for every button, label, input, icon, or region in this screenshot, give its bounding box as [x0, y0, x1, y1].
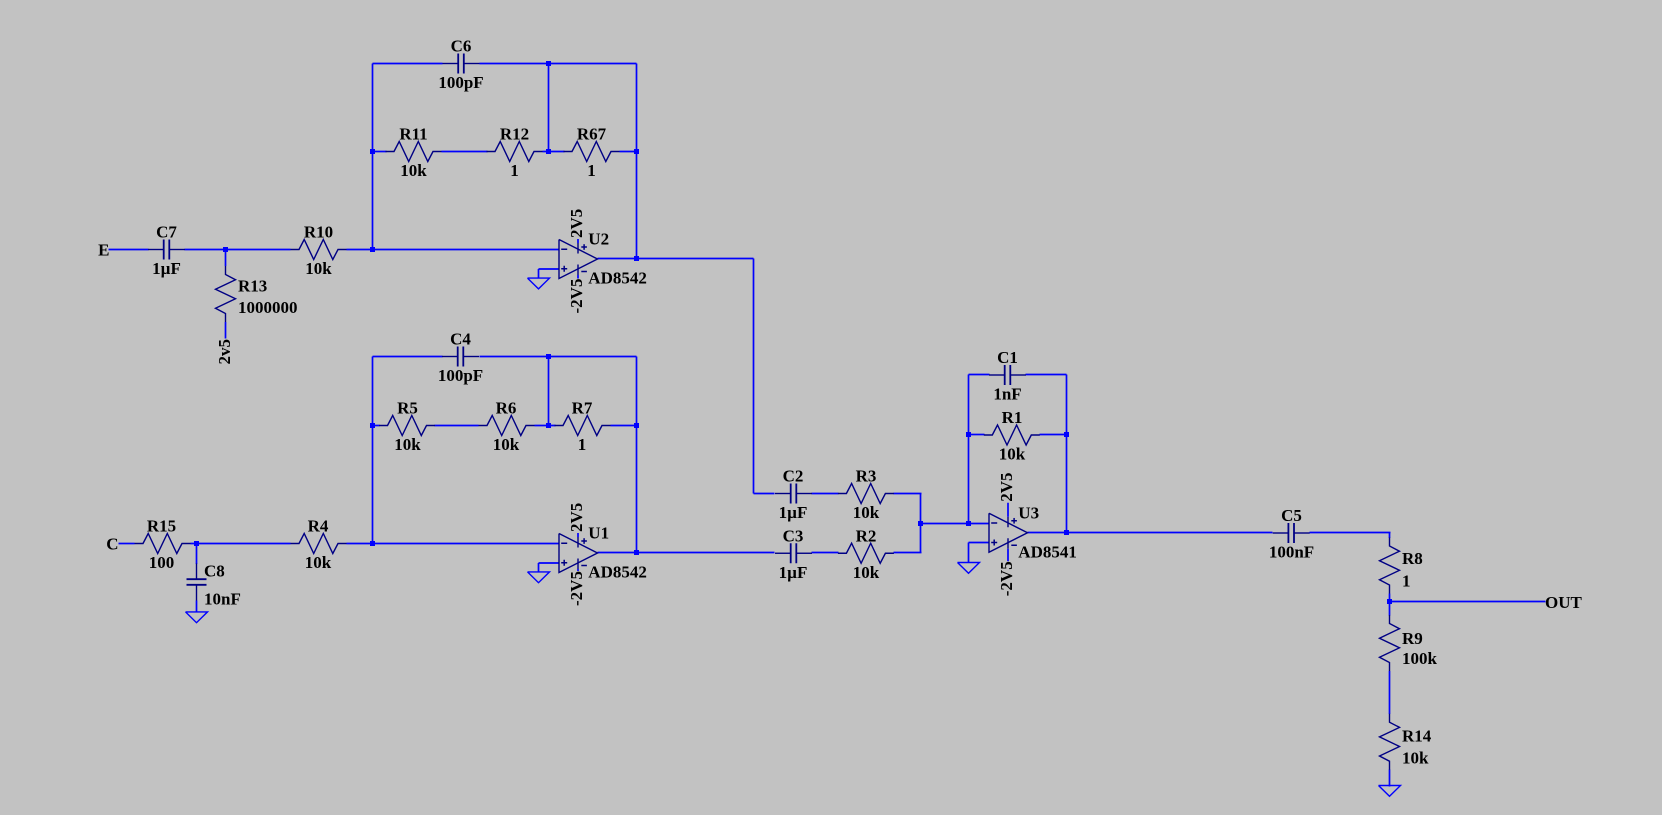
- svg-text:1: 1: [587, 161, 596, 180]
- svg-text:1nF: 1nF: [993, 385, 1021, 404]
- svg-text:R12: R12: [500, 125, 529, 144]
- svg-text:R10: R10: [304, 223, 333, 242]
- svg-text:C8: C8: [204, 562, 225, 581]
- svg-text:U2: U2: [588, 230, 609, 249]
- svg-text:2V5: 2V5: [567, 503, 586, 532]
- svg-text:2V5: 2V5: [567, 209, 586, 238]
- svg-text:R67: R67: [577, 125, 607, 144]
- svg-text:C7: C7: [156, 223, 177, 242]
- svg-text:10k: 10k: [394, 435, 421, 454]
- svg-text:R8: R8: [1402, 549, 1423, 568]
- svg-text:1000000: 1000000: [238, 298, 298, 317]
- svg-text:10k: 10k: [400, 161, 427, 180]
- svg-text:R13: R13: [238, 277, 267, 296]
- svg-text:1µF: 1µF: [152, 259, 181, 278]
- svg-text:C2: C2: [783, 467, 804, 486]
- svg-text:-2V5: -2V5: [997, 561, 1016, 596]
- svg-text:1µF: 1µF: [779, 563, 808, 582]
- svg-text:10k: 10k: [305, 259, 332, 278]
- svg-text:R9: R9: [1402, 629, 1423, 648]
- svg-text:10k: 10k: [999, 445, 1026, 464]
- svg-text:C: C: [106, 535, 118, 554]
- svg-text:R3: R3: [856, 467, 877, 486]
- svg-text:C1: C1: [997, 348, 1018, 367]
- svg-text:10k: 10k: [853, 563, 880, 582]
- svg-text:R15: R15: [147, 517, 176, 536]
- svg-text:AD8542: AD8542: [588, 269, 647, 288]
- svg-text:R14: R14: [1402, 727, 1432, 746]
- svg-text:R7: R7: [572, 399, 593, 418]
- svg-text:2v5: 2v5: [215, 339, 234, 365]
- svg-text:AD8541: AD8541: [1018, 542, 1077, 561]
- svg-text:1: 1: [1402, 572, 1411, 591]
- svg-text:U1: U1: [588, 524, 609, 543]
- svg-text:100pF: 100pF: [438, 366, 483, 385]
- svg-text:AD8542: AD8542: [588, 563, 647, 582]
- svg-text:2V5: 2V5: [997, 472, 1016, 501]
- svg-text:10k: 10k: [853, 503, 880, 522]
- svg-text:OUT: OUT: [1545, 593, 1583, 612]
- svg-text:100k: 100k: [1402, 649, 1438, 668]
- svg-text:100: 100: [149, 553, 175, 572]
- svg-text:U3: U3: [1018, 503, 1039, 522]
- svg-text:C6: C6: [451, 37, 472, 56]
- svg-text:C5: C5: [1281, 506, 1302, 525]
- svg-text:100pF: 100pF: [438, 73, 483, 92]
- svg-text:100nF: 100nF: [1269, 543, 1314, 562]
- svg-text:R4: R4: [308, 517, 329, 536]
- svg-text:-2V5: -2V5: [567, 279, 586, 314]
- svg-text:C4: C4: [450, 330, 471, 349]
- svg-text:C3: C3: [783, 526, 804, 545]
- svg-text:E: E: [98, 241, 109, 260]
- svg-text:R11: R11: [399, 125, 427, 144]
- svg-text:10k: 10k: [1402, 749, 1429, 768]
- svg-text:R2: R2: [856, 526, 877, 545]
- svg-text:10k: 10k: [305, 553, 332, 572]
- svg-text:10nF: 10nF: [204, 590, 241, 609]
- svg-text:1µF: 1µF: [779, 503, 808, 522]
- svg-text:R1: R1: [1002, 408, 1023, 427]
- svg-text:R5: R5: [397, 399, 418, 418]
- svg-text:R6: R6: [496, 399, 517, 418]
- svg-text:10k: 10k: [493, 435, 520, 454]
- svg-text:1: 1: [510, 161, 519, 180]
- svg-text:1: 1: [578, 435, 587, 454]
- svg-text:-2V5: -2V5: [567, 571, 586, 606]
